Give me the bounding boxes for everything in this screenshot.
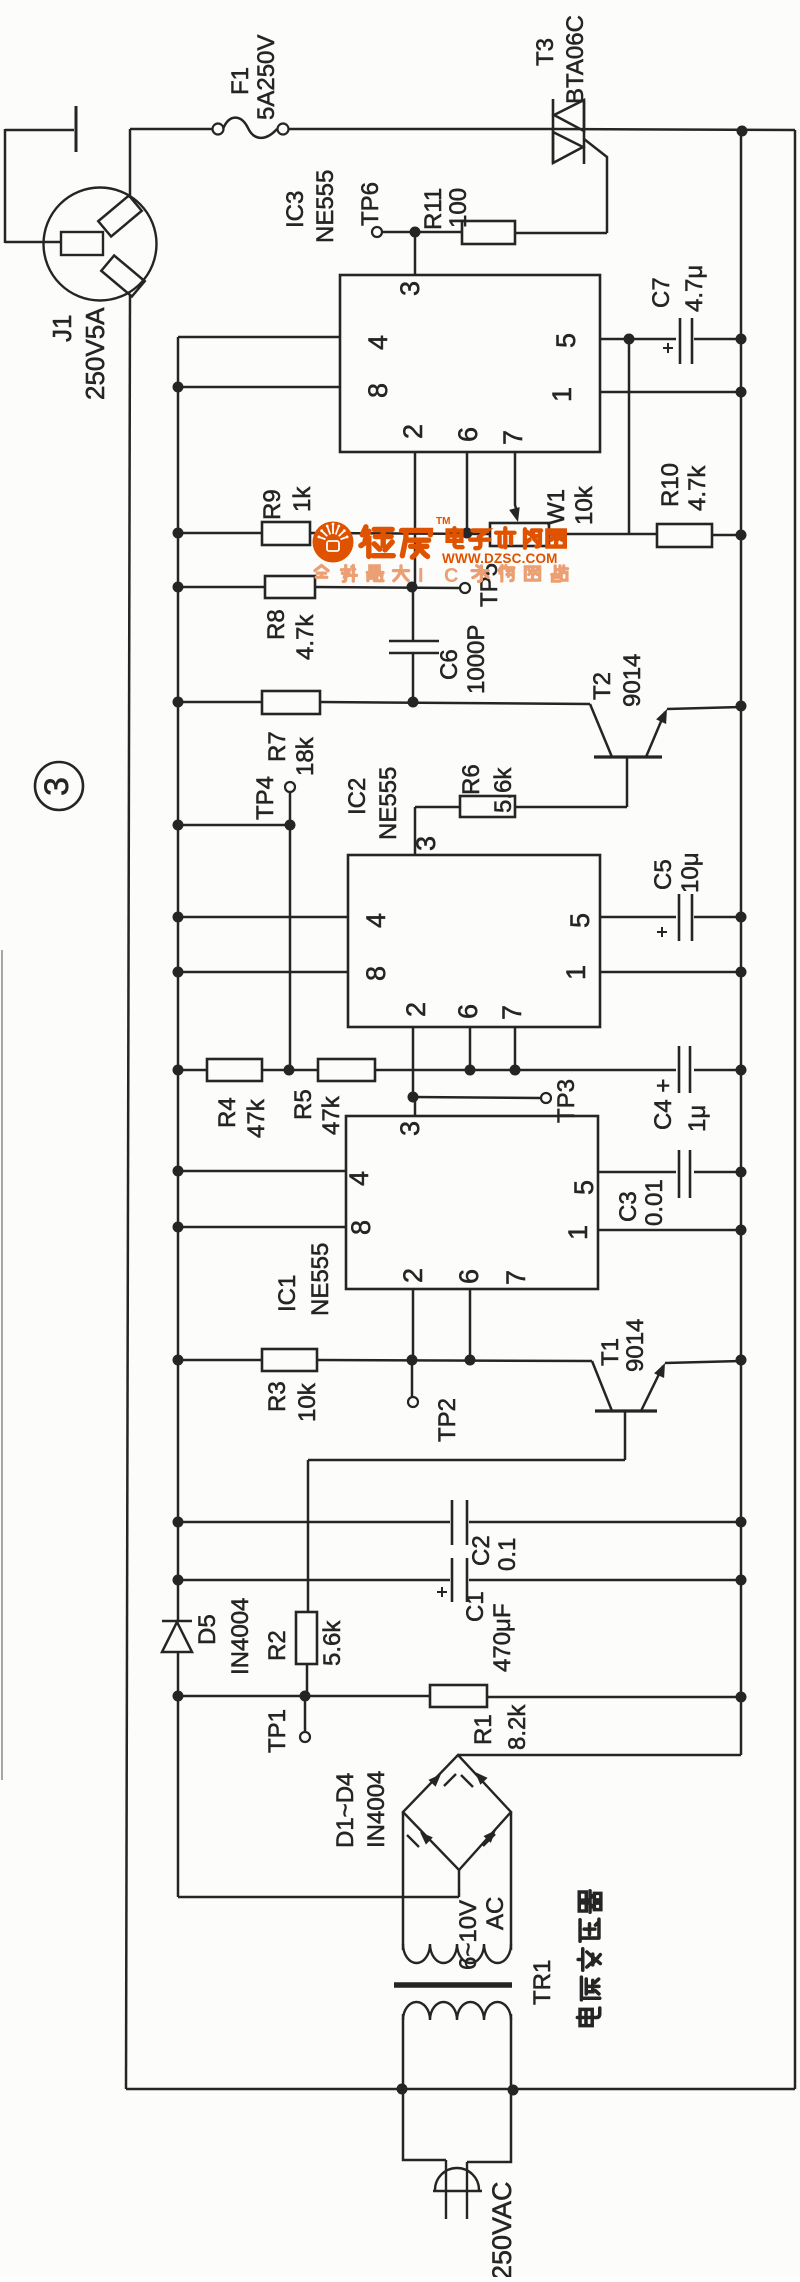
test point TP6 [372, 227, 382, 237]
node V+ rail [177, 337, 180, 1621]
wire [600, 338, 676, 341]
wire [178, 916, 348, 919]
svg-text:470μF: 470μF [489, 1603, 516, 1672]
svg-text:47k: 47k [243, 1098, 270, 1138]
wire [178, 1170, 346, 1173]
wire [514, 1027, 517, 1070]
svg-text:250VAC: 250VAC [487, 2181, 517, 2277]
svg-text:1: 1 [561, 965, 591, 980]
svg-text:10k: 10k [571, 485, 598, 525]
svg-text:C6: C6 [436, 649, 463, 680]
svg-text:1μ: 1μ [684, 1105, 711, 1132]
svg-text:1: 1 [547, 387, 577, 402]
transformer TR1 primary [403, 2002, 511, 2020]
svg-text:J1: J1 [47, 315, 77, 342]
svg-text:R9: R9 [259, 489, 286, 520]
svg-text:IN4004: IN4004 [227, 1598, 254, 1675]
svg-text:4: 4 [363, 335, 393, 350]
resistor R1 [430, 1685, 487, 1707]
capacitor C3 [678, 1150, 681, 1198]
svg-text:NE555: NE555 [375, 767, 402, 840]
svg-text:R11: R11 [420, 188, 447, 230]
op-amp U3 IC1 NE555 [346, 1116, 598, 1289]
label power transformer [577, 2008, 599, 2026]
wire [549, 533, 657, 536]
svg-text:IC3: IC3 [282, 191, 309, 228]
wire [510, 2014, 513, 2091]
svg-text:7: 7 [501, 1270, 531, 1285]
svg-text:0.1: 0.1 [494, 1538, 521, 1571]
resistor R4 [207, 1059, 262, 1081]
svg-text:NE555: NE555 [307, 1243, 334, 1316]
wire [130, 128, 212, 131]
wire [458, 1754, 741, 1757]
wire [178, 971, 348, 974]
svg-text:2: 2 [398, 424, 428, 439]
wire [317, 1360, 592, 1361]
svg-text:IC1: IC1 [274, 1275, 301, 1312]
capacitor C2 [451, 1500, 454, 1545]
wire [600, 391, 741, 394]
svg-text:T3: T3 [532, 38, 559, 66]
wire [178, 1359, 262, 1362]
wire [375, 1069, 676, 1072]
capacitor C4 [678, 1046, 681, 1093]
wire [382, 231, 462, 234]
op-amp U1 IC3 NE555 [340, 275, 600, 452]
wire [403, 2089, 446, 2160]
connector J1 [44, 188, 157, 301]
svg-text:3: 3 [395, 1121, 425, 1136]
wire [487, 1696, 741, 1699]
wire [414, 807, 417, 855]
transformer core [394, 1982, 512, 1988]
wire [308, 1459, 625, 1462]
wire [414, 232, 417, 275]
svg-text:TP1: TP1 [264, 1709, 291, 1753]
diode D5 IN4004 [162, 1620, 192, 1623]
svg-text:R10: R10 [657, 463, 684, 507]
svg-text:R2: R2 [264, 1630, 291, 1661]
test point TP4 [285, 782, 295, 792]
svg-text:9014: 9014 [619, 654, 646, 707]
wire [178, 586, 265, 589]
svg-text:C4 +: C4 + [650, 1079, 677, 1130]
wire [315, 587, 460, 588]
svg-text:C: C [444, 565, 458, 587]
svg-text:1000P: 1000P [463, 625, 490, 694]
svg-text:T1: T1 [597, 1338, 624, 1366]
wire [178, 1896, 459, 1899]
wire [310, 533, 490, 534]
wire [178, 701, 262, 704]
svg-text:3: 3 [411, 836, 441, 851]
wire [178, 1579, 450, 1582]
test point TP1 [304, 1696, 307, 1732]
wire [600, 971, 741, 974]
resistor R9 [262, 522, 310, 545]
wire [413, 1097, 541, 1098]
svg-text:BTA06C: BTA06C [562, 15, 589, 104]
capacitor C1 [451, 1558, 454, 1602]
capacitor C6 [412, 587, 415, 641]
resistor R3 [262, 1349, 317, 1371]
wire [598, 1171, 676, 1174]
svg-text:IN4004: IN4004 [363, 1771, 390, 1848]
transistor Q1 T1 9014 [595, 1409, 657, 1412]
svg-text:C2: C2 [468, 1535, 495, 1566]
svg-text:TM: TM [436, 516, 450, 527]
potentiometer W1 [490, 523, 549, 546]
wire [178, 386, 340, 389]
svg-text:0.01: 0.01 [641, 1179, 668, 1226]
transistor Q2 T2 9014 [594, 755, 662, 758]
wire [289, 128, 553, 131]
wire [402, 2014, 405, 2089]
svg-text:5: 5 [565, 913, 595, 928]
svg-text:R1: R1 [470, 1714, 497, 1745]
resistor R11 [462, 221, 515, 244]
wire [794, 130, 797, 2089]
wire [466, 452, 469, 533]
resistor R5 [318, 1059, 375, 1081]
wire [126, 294, 130, 2089]
wire [320, 702, 590, 704]
svg-text:7: 7 [497, 1005, 527, 1020]
svg-text:10μ: 10μ [677, 852, 704, 893]
op-amp U2 IC2 NE555 [348, 855, 600, 1027]
wire [178, 1521, 450, 1524]
svg-text:I: I [418, 565, 424, 587]
svg-text:8: 8 [363, 383, 393, 398]
svg-text:TP6: TP6 [357, 182, 384, 226]
svg-text:10k: 10k [294, 1382, 321, 1422]
svg-text:4: 4 [361, 913, 391, 928]
svg-text:C3: C3 [615, 1191, 642, 1222]
wire [307, 1460, 310, 1612]
svg-text:R3: R3 [264, 1381, 291, 1412]
svg-text:2: 2 [398, 1268, 428, 1283]
svg-text:F1: F1 [227, 67, 254, 95]
test point TP5 [460, 583, 470, 593]
svg-text:R8: R8 [263, 609, 290, 640]
wire [412, 1027, 415, 1097]
wire [414, 1097, 417, 1116]
wire [178, 336, 340, 339]
svg-text:C1: C1 [462, 1591, 489, 1622]
wire [515, 232, 607, 235]
wire [126, 2088, 795, 2091]
svg-text:W1: W1 [543, 489, 570, 525]
svg-text:100: 100 [445, 188, 472, 228]
wire [178, 824, 290, 827]
svg-text:NE555: NE555 [312, 170, 339, 243]
svg-text:5A250V: 5A250V [253, 35, 280, 120]
wire [515, 806, 627, 809]
svg-text:250V5A: 250V5A [80, 307, 110, 400]
wire [129, 129, 132, 198]
wire [469, 1289, 472, 1360]
wire [289, 825, 292, 1070]
svg-text:D5: D5 [194, 1614, 221, 1645]
triac T3 [552, 99, 555, 163]
capacitor C5 [678, 894, 681, 941]
node 3 page marker [35, 762, 83, 810]
svg-text:4.7μ: 4.7μ [681, 265, 708, 312]
svg-text:C7: C7 [648, 277, 675, 308]
svg-text:R5: R5 [290, 1089, 317, 1120]
wire [600, 916, 676, 919]
wire [4, 129, 7, 243]
svg-text:TP4: TP4 [252, 776, 279, 820]
wire [402, 1812, 405, 1950]
svg-text:WWW.DZSC.COM: WWW.DZSC.COM [442, 551, 558, 566]
wire [510, 1812, 513, 1950]
wire [458, 1870, 461, 1897]
svg-text:4.7k: 4.7k [292, 614, 319, 660]
svg-text:3: 3 [38, 777, 76, 796]
test point TP2 [411, 1360, 414, 1397]
fuse F1 [213, 124, 224, 135]
test point TP3 [541, 1093, 551, 1103]
wire [262, 1069, 318, 1072]
svg-text:3: 3 [395, 281, 425, 296]
svg-text:18k: 18k [292, 736, 319, 776]
watermark logo [313, 522, 354, 563]
wire [628, 339, 631, 534]
wire [712, 534, 741, 537]
bridge rectifier D1-D4 IN4004 [403, 1755, 511, 1870]
node V- rail [740, 131, 743, 1755]
wire [178, 1695, 430, 1698]
wire [598, 1229, 741, 1232]
svg-text:C5: C5 [650, 859, 677, 890]
svg-text:7: 7 [498, 430, 528, 445]
svg-text:47k: 47k [318, 1095, 345, 1135]
resistor R8 [265, 576, 315, 598]
svg-text:8: 8 [361, 966, 391, 981]
svg-text:6: 6 [453, 1004, 483, 1019]
wire [467, 2091, 511, 2162]
svg-text:TR1: TR1 [529, 1960, 556, 2005]
scan edge artifact [1, 950, 3, 1780]
resistor R6 [460, 796, 515, 817]
svg-text:6: 6 [454, 1269, 484, 1284]
wire [515, 452, 517, 512]
wire [178, 1069, 207, 1072]
svg-text:TP2: TP2 [434, 1398, 461, 1442]
svg-text:1: 1 [563, 1225, 593, 1240]
watermark slogan [315, 566, 328, 578]
resistor R2 [296, 1612, 317, 1664]
wire [178, 532, 262, 535]
svg-text:IC2: IC2 [344, 778, 371, 815]
svg-text:R6: R6 [458, 764, 485, 795]
svg-text:5.6k: 5.6k [319, 1620, 346, 1666]
svg-text:R7: R7 [264, 731, 291, 762]
svg-text:5: 5 [569, 1180, 599, 1195]
wire [414, 452, 417, 587]
svg-text:6~10V: 6~10V [455, 1900, 482, 1970]
svg-text:6: 6 [453, 427, 483, 442]
svg-text:1k: 1k [289, 486, 316, 512]
transformer TR1 secondary [403, 1944, 511, 1963]
svg-text:T2: T2 [589, 672, 616, 700]
svg-text:R4: R4 [214, 1097, 241, 1128]
watermark brand [361, 527, 393, 557]
svg-text:AC: AC [482, 1897, 509, 1930]
resistor R10 [657, 524, 712, 547]
svg-text:9014: 9014 [622, 1319, 649, 1372]
svg-text:5: 5 [551, 333, 581, 348]
resistor R7 [262, 691, 320, 714]
svg-text:5.6k: 5.6k [490, 767, 517, 813]
svg-text:2: 2 [401, 1002, 431, 1017]
AC source 250VAC [445, 2160, 447, 2219]
wire [178, 1226, 346, 1229]
svg-text:8.2k: 8.2k [504, 1704, 531, 1750]
capacitor C7 [679, 318, 682, 364]
svg-text:8: 8 [346, 1220, 376, 1235]
wire [412, 1289, 415, 1360]
wire [469, 1027, 472, 1070]
wire [289, 792, 292, 825]
svg-text:D1~D4: D1~D4 [332, 1773, 359, 1848]
ground [5, 129, 74, 132]
svg-text:4: 4 [344, 1171, 374, 1186]
svg-text:4.7k: 4.7k [684, 465, 711, 511]
